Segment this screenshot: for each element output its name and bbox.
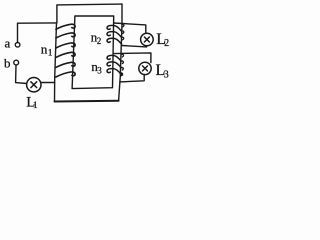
coil n1 turn 5 — [56, 62, 75, 67]
wire coil n3 top to lamp L3 — [113, 53, 151, 63]
wire lamp L2 bottom return — [122, 46, 147, 47]
wire coil n3 front line — [119, 53, 122, 75]
svg-text:3: 3 — [164, 69, 169, 80]
wire coil n2 front line — [121, 4, 122, 53]
transformer core — [72, 16, 114, 89]
svg-text:2: 2 — [97, 36, 102, 46]
svg-text:2: 2 — [164, 38, 169, 49]
terminal a — [15, 43, 20, 48]
coil n2 turn 3 — [107, 38, 122, 44]
coil n2 turn 2 — [107, 32, 122, 38]
coil n1 turn 4 — [56, 52, 75, 57]
wire coil n2 top to lamp L2 — [114, 23, 146, 33]
svg-text:b: b — [4, 55, 11, 70]
coil n1 turn 2 — [56, 33, 75, 38]
lamp L1 — [27, 78, 41, 92]
wire input a — [18, 23, 57, 43]
wire coil n1 front line down — [55, 23, 57, 102]
coil n1 turn 1 — [56, 24, 75, 29]
wire lamp L1 to coil n1 bottom — [41, 82, 55, 84]
coil n3 turn 2 — [107, 62, 121, 68]
wire bottom return — [55, 100, 119, 103]
wire top over core — [57, 4, 122, 23]
coil n3 wire crossing nubs — [121, 54, 123, 70]
coil n3 turn 3 — [107, 69, 121, 75]
svg-text:n: n — [41, 42, 48, 57]
svg-text:a: a — [5, 36, 11, 51]
coil n1 turn 3 — [56, 43, 75, 48]
svg-text:3: 3 — [97, 65, 102, 75]
coil n2 wire crossing nubs — [122, 24, 124, 40]
svg-text:1: 1 — [48, 47, 53, 57]
lamp L3 — [139, 62, 151, 74]
wire b to lamp L1 — [16, 65, 27, 84]
coil n3 turn 1 — [107, 55, 121, 61]
coil n3 bottom hook — [120, 73, 122, 76]
coil n2 turn 1 — [107, 25, 122, 31]
coil n1 turn 6 — [56, 72, 75, 77]
wire right return up to coil n3 — [119, 75, 121, 101]
lamp L2 — [141, 33, 154, 46]
svg-text:1: 1 — [33, 100, 38, 110]
wire lamp L3 bottom return — [120, 75, 144, 82]
terminal b — [14, 60, 19, 65]
